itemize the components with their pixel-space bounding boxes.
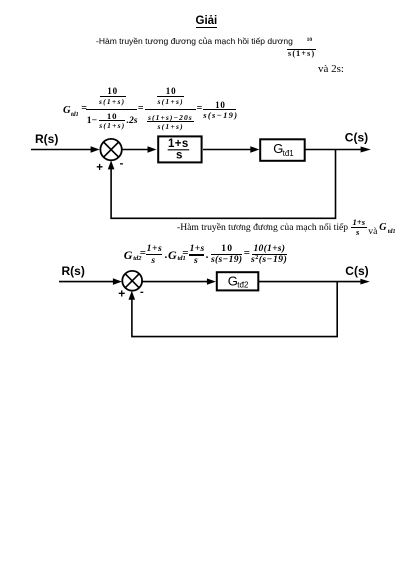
svg-text:1+s: 1+s [168, 138, 189, 150]
wire R(s) to summing junction S1 [31, 149, 92, 151]
= [244, 248, 250, 259]
wire S1 to block B1 [122, 149, 150, 151]
G_td1 = [63, 106, 71, 117]
frac (1+s)/s second [190, 244, 205, 254]
S2 cross line 2 [125, 274, 139, 288]
summing junction S1 [100, 139, 121, 160]
output arrowhead [361, 147, 371, 153]
G_td1 after va [379, 223, 386, 233]
f1 main bar [86, 109, 137, 110]
svg-text:+: + [118, 287, 125, 301]
G_td1 [168, 249, 177, 261]
text va [368, 227, 377, 237]
wire S2 to block B3 [142, 281, 208, 283]
paragraph: ham truyen noi tiep [177, 223, 348, 233]
arrowhead into B2 [250, 146, 259, 153]
= sign 3 [197, 104, 203, 114]
G_td2 = [124, 249, 133, 261]
frac 10(1+s)/(s^2(s-19)) [254, 244, 286, 254]
arrowhead into S1 [91, 146, 100, 153]
inline fraction (1+s)/s [353, 218, 366, 227]
arrowhead into S2 [113, 278, 122, 285]
feedback wire diagram 1 [111, 150, 335, 219]
f1 denominator: 1 - 10/s(1+s) .2s [87, 116, 97, 126]
block B3 rect G_td2 [217, 272, 258, 290]
B1 fraction bar [168, 149, 190, 151]
frac 10/(s(s-19)) [221, 244, 233, 254]
S1 cross line 2 [104, 142, 119, 157]
feedback wire diagram 2 [132, 282, 337, 337]
paragraph: ham truyen hoi tiep duong [96, 37, 293, 46]
svg-text:-: - [140, 286, 144, 298]
feedback arrowhead up into S2 [129, 291, 136, 300]
svg-text:tđ1: tđ1 [283, 149, 295, 158]
wire B2 to output C(s) [305, 149, 361, 151]
wire B1 to block B2 [203, 149, 252, 151]
wire R(s) to summing junction S2 [59, 281, 115, 283]
title "Giải" [196, 16, 218, 29]
svg-text:R(s): R(s) [62, 264, 85, 278]
svg-text:C(s): C(s) [345, 264, 368, 278]
svg-text:-: - [120, 157, 124, 169]
svg-text:+: + [96, 162, 103, 174]
inline fraction 10 / s(1+s) top right [307, 38, 313, 44]
f3: 10 / s(s-19) [215, 101, 226, 110]
f2 nested num [166, 87, 177, 96]
svg-text:tđ2: tđ2 [237, 281, 249, 290]
summing junction S2 [122, 271, 142, 291]
arrowhead into B3 [207, 278, 216, 284]
svg-text:R(s): R(s) [35, 132, 58, 146]
frac (1+s)/s [147, 244, 163, 254]
block B1 rect (1+s)/s [158, 136, 201, 162]
= sign 2 [138, 104, 144, 114]
wire B3 to output C(s) [259, 281, 361, 283]
dot [165, 250, 168, 261]
svg-text:s: s [176, 150, 182, 162]
middle dot [206, 250, 209, 261]
svg-text:C(s): C(s) [345, 131, 368, 145]
f1 nested num: 10/s(1+s) [107, 87, 118, 96]
f2 denominator fraction [148, 114, 193, 122]
block B2 rect G_td1 [260, 139, 305, 161]
f2 main bar [145, 109, 196, 110]
text "và 2s:" [318, 64, 344, 75]
arrowhead into B1 [148, 146, 157, 153]
feedback arrowhead up into S1 [108, 160, 115, 169]
output arrowhead diagram 2 [360, 279, 369, 285]
S2 cross line 1 [125, 274, 139, 288]
S1 cross line 1 [104, 142, 119, 157]
